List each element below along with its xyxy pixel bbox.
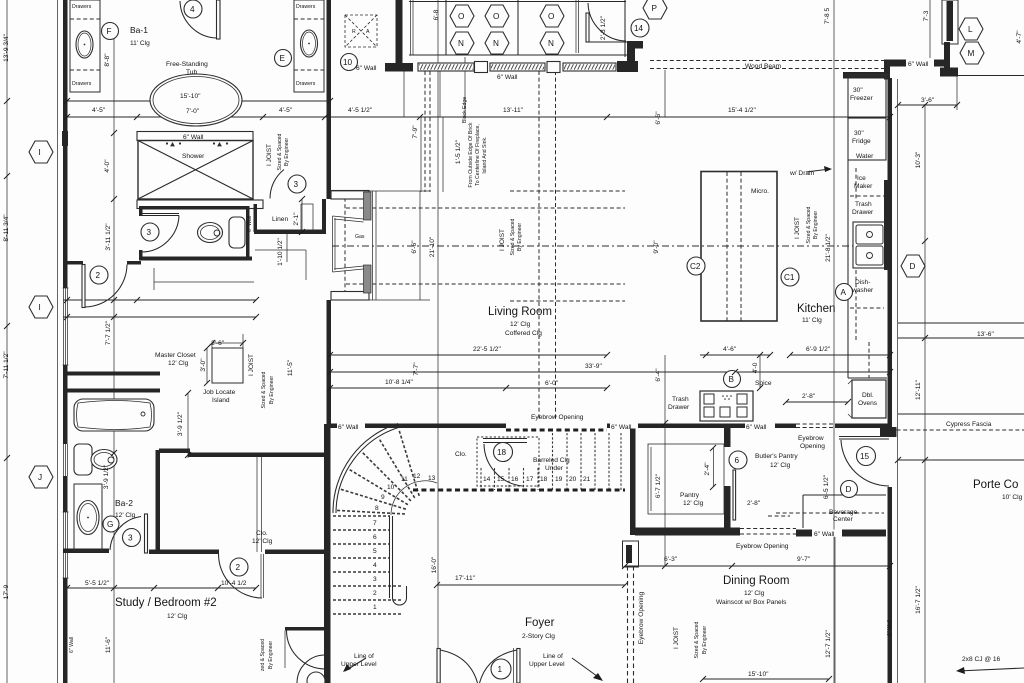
svg-text:By Engineer: By Engineer (269, 376, 275, 405)
svg-text:6" Wall: 6" Wall (908, 61, 929, 68)
svg-text:Sized & Spaced: Sized & Spaced (261, 371, 267, 408)
svg-text:Coffered Clg: Coffered Clg (505, 330, 542, 337)
svg-text:3'-9 1/2": 3'-9 1/2" (177, 411, 184, 436)
svg-text:6" Wall: 6" Wall (338, 424, 359, 431)
svg-text:A: A (841, 288, 847, 297)
svg-text:Drawer: Drawer (668, 404, 690, 411)
svg-text:Block Edge: Block Edge (462, 97, 468, 123)
svg-text:Freezer: Freezer (850, 95, 874, 102)
svg-text:13'-9 3/4": 13'-9 3/4" (3, 33, 10, 61)
svg-text:I JOIST: I JOIST (248, 354, 255, 376)
svg-text:16: 16 (511, 476, 519, 483)
svg-text:17: 17 (526, 476, 534, 483)
svg-text:Trash: Trash (855, 201, 872, 208)
svg-text:13'-6": 13'-6" (977, 331, 994, 338)
svg-text:Drawers: Drawers (72, 4, 92, 10)
svg-text:Eyebrow Opening: Eyebrow Opening (736, 543, 789, 550)
svg-text:Upper Level: Upper Level (529, 661, 565, 668)
svg-text:15: 15 (497, 476, 505, 483)
svg-text:R: R (352, 29, 356, 35)
svg-text:C1: C1 (784, 273, 795, 282)
svg-text:To Centerline Of Fireplace,: To Centerline Of Fireplace, (475, 124, 481, 186)
svg-text:I JOIST: I JOIST (499, 229, 506, 251)
svg-text:Barreled Clg: Barreled Clg (533, 457, 570, 464)
svg-text:C2: C2 (690, 262, 701, 271)
svg-text:3'-11 1/2": 3'-11 1/2" (105, 223, 112, 251)
svg-text:Drawers: Drawers (296, 81, 316, 87)
svg-text:12' Clg: 12' Clg (510, 321, 531, 328)
svg-text:18: 18 (540, 476, 548, 483)
svg-text:J: J (38, 473, 42, 482)
svg-text:21: 21 (583, 476, 591, 483)
svg-text:Island And Sink.: Island And Sink. (482, 136, 488, 173)
svg-text:washer: washer (851, 287, 874, 294)
svg-text:Foyer: Foyer (525, 617, 555, 629)
svg-text:21'-10": 21'-10" (429, 236, 436, 257)
svg-text:3: 3 (128, 534, 133, 543)
svg-text:O: O (548, 12, 554, 21)
svg-text:Under: Under (545, 465, 564, 472)
svg-text:I: I (39, 148, 41, 157)
svg-text:7: 7 (373, 520, 377, 527)
svg-text:N: N (493, 39, 499, 48)
svg-text:11' Clg: 11' Clg (802, 317, 822, 324)
svg-text:4'-6": 4'-6" (723, 346, 737, 353)
svg-text:6'-9 1/2": 6'-9 1/2" (806, 346, 831, 353)
svg-text:Spice: Spice (755, 380, 772, 387)
svg-text:10'-3": 10'-3" (915, 151, 922, 168)
svg-text:A: A (366, 29, 370, 35)
svg-text:2'-3 1/2": 2'-3 1/2" (600, 15, 607, 40)
svg-text:G: G (107, 520, 113, 529)
svg-text:Wainscot w/ Box Panels: Wainscot w/ Box Panels (716, 599, 787, 606)
svg-text:14: 14 (483, 476, 491, 483)
svg-text:4'-0": 4'-0" (104, 159, 111, 173)
svg-text:19: 19 (555, 476, 563, 483)
svg-text:2-Story Clg: 2-Story Clg (522, 633, 555, 640)
svg-text:1'-5 1/2": 1'-5 1/2" (455, 139, 462, 164)
svg-text:Maker: Maker (854, 183, 873, 190)
svg-text:Ovens: Ovens (858, 400, 878, 407)
svg-text:4'-5": 4'-5" (279, 107, 293, 114)
svg-text:9: 9 (381, 494, 385, 501)
svg-text:2'-6": 2'-6" (211, 340, 225, 347)
svg-text:P: P (652, 4, 658, 13)
svg-text:21'-8 1/2": 21'-8 1/2" (825, 233, 832, 261)
svg-text:6" Wall: 6" Wall (887, 620, 893, 636)
svg-text:N: N (458, 39, 464, 48)
svg-text:6'-5 1/2": 6'-5 1/2" (823, 474, 830, 499)
svg-text:6" Wall: 6" Wall (247, 216, 253, 232)
svg-text:15'-10": 15'-10" (180, 93, 201, 100)
svg-text:Eyebrow: Eyebrow (798, 435, 824, 442)
svg-text:Sized & Spaced: Sized & Spaced (806, 206, 812, 243)
svg-text:Master Closet: Master Closet (155, 352, 196, 359)
svg-text:Dish-: Dish- (855, 279, 870, 286)
svg-text:From Outside Edge Of Brick: From Outside Edge Of Brick (468, 122, 474, 187)
svg-text:D: D (846, 485, 852, 494)
svg-text:8'-11 3/4": 8'-11 3/4" (3, 214, 10, 242)
svg-text:6'-6": 6'-6" (411, 240, 418, 254)
svg-text:5: 5 (373, 548, 377, 555)
svg-text:I JOIST: I JOIST (266, 144, 273, 166)
svg-text:Job Locate: Job Locate (203, 389, 236, 396)
svg-text:4: 4 (190, 5, 195, 14)
svg-text:12' Clg: 12' Clg (744, 590, 765, 597)
svg-text:12'-7 1/2": 12'-7 1/2" (825, 629, 832, 657)
svg-text:By Engineer: By Engineer (284, 138, 290, 167)
svg-text:13'-11": 13'-11" (503, 107, 524, 114)
svg-text:Micro.: Micro. (751, 188, 769, 195)
svg-text:Study / Bedroom #2: Study / Bedroom #2 (115, 597, 217, 609)
svg-text:12'-11": 12'-11" (915, 379, 922, 400)
svg-text:Drawers: Drawers (296, 4, 316, 10)
svg-text:Wood Beam: Wood Beam (745, 63, 782, 70)
svg-text:16'-7 1/2": 16'-7 1/2" (915, 585, 922, 613)
svg-text:7'-8 5: 7'-8 5 (824, 8, 831, 25)
svg-text:Drawers: Drawers (72, 81, 92, 87)
svg-text:1: 1 (498, 665, 503, 674)
svg-text:Living Room: Living Room (488, 306, 552, 318)
svg-text:9'-0": 9'-0" (653, 240, 660, 254)
svg-text:Pantry: Pantry (680, 492, 700, 499)
svg-text:4'-0: 4'-0 (752, 362, 759, 373)
svg-text:5'-5 1/2": 5'-5 1/2" (85, 580, 110, 587)
svg-text:Linen: Linen (272, 216, 288, 223)
svg-text:7'-9": 7'-9" (412, 125, 419, 139)
svg-text:By Engineer: By Engineer (813, 211, 819, 240)
svg-text:By Engineer: By Engineer (702, 626, 708, 655)
svg-text:4'-5": 4'-5" (92, 107, 106, 114)
svg-text:Free-Standing: Free-Standing (166, 61, 208, 68)
svg-text:Dbl.: Dbl. (862, 392, 874, 399)
svg-text:18: 18 (497, 448, 507, 457)
svg-text:14: 14 (634, 24, 644, 33)
svg-text:3: 3 (294, 180, 299, 189)
svg-text:6'-3": 6'-3" (664, 556, 678, 563)
svg-text:12' Clg: 12' Clg (683, 500, 704, 507)
svg-text:33'-9": 33'-9" (585, 363, 602, 370)
svg-text:zed & Spaced: zed & Spaced (260, 639, 266, 671)
svg-text:16'-0": 16'-0" (431, 556, 438, 573)
svg-text:B: B (729, 375, 735, 384)
svg-text:13: 13 (428, 475, 436, 482)
svg-text:Sized & Spaced: Sized & Spaced (694, 621, 700, 658)
svg-text:Shower: Shower (182, 153, 205, 160)
svg-text:Sized & Spaced: Sized & Spaced (510, 218, 516, 255)
svg-text:6" Wall: 6" Wall (746, 424, 767, 431)
svg-text:I JOIST: I JOIST (673, 627, 680, 649)
svg-text:3: 3 (147, 228, 152, 237)
svg-text:17'-9: 17'-9 (3, 584, 10, 599)
svg-text:2'-1": 2'-1" (293, 212, 300, 226)
svg-text:6'-6": 6'-6" (655, 111, 662, 125)
svg-text:Tub: Tub (186, 69, 197, 76)
svg-text:20: 20 (569, 476, 577, 483)
svg-text:Fridge: Fridge (852, 138, 871, 145)
svg-text:8: 8 (375, 505, 379, 512)
svg-text:Kitchen: Kitchen (797, 303, 835, 315)
svg-text:10' Clg: 10' Clg (1002, 494, 1023, 501)
svg-text:D: D (910, 262, 916, 271)
svg-text:2'-8": 2'-8" (802, 393, 816, 400)
svg-text:Ice: Ice (857, 175, 866, 182)
svg-text:Gas: Gas (355, 234, 365, 240)
svg-text:6" Wall: 6" Wall (814, 531, 835, 538)
svg-text:I JOIST: I JOIST (794, 217, 801, 239)
svg-text:6'-0": 6'-0" (545, 380, 559, 387)
svg-text:M: M (968, 49, 975, 58)
svg-text:9'-7": 9'-7" (797, 556, 811, 563)
svg-text:7'-7": 7'-7" (413, 362, 420, 376)
svg-text:2x8 CJ @ 16: 2x8 CJ @ 16 (962, 656, 1001, 663)
svg-text:7'-11 1/2": 7'-11 1/2" (3, 351, 10, 379)
svg-text:3: 3 (373, 576, 377, 583)
svg-text:11'-5": 11'-5" (287, 359, 294, 376)
svg-text:Porte Co: Porte Co (973, 479, 1018, 491)
svg-text:6" Wall: 6" Wall (497, 74, 518, 81)
svg-text:Ba-2: Ba-2 (115, 498, 133, 508)
svg-text:6" Wall: 6" Wall (69, 637, 75, 653)
svg-text:10'-8 1/4": 10'-8 1/4" (385, 379, 413, 386)
svg-text:12' Clg: 12' Clg (252, 538, 273, 545)
svg-text:Beverage: Beverage (829, 509, 858, 516)
svg-text:12' Clg: 12' Clg (770, 462, 791, 469)
svg-text:1'-10 1/2": 1'-10 1/2" (277, 237, 284, 265)
svg-text:Trash: Trash (672, 396, 689, 403)
svg-text:N: N (548, 39, 554, 48)
svg-text:E: E (280, 54, 286, 63)
svg-text:6'-4": 6'-4" (655, 368, 662, 382)
svg-text:O: O (493, 12, 499, 21)
svg-text:6'-8: 6'-8 (433, 9, 440, 20)
svg-text:11' Clg: 11' Clg (130, 40, 150, 47)
svg-text:Eyebrow Opening: Eyebrow Opening (638, 591, 645, 644)
svg-text:4: 4 (373, 562, 377, 569)
svg-text:7'-7 1/2": 7'-7 1/2" (105, 320, 112, 345)
svg-text:Opening: Opening (800, 443, 825, 450)
svg-text:30": 30" (853, 87, 863, 94)
svg-text:6" Wall: 6" Wall (611, 424, 632, 431)
svg-text:O: O (458, 12, 464, 21)
svg-text:15'-10": 15'-10" (748, 671, 769, 678)
svg-text:12' Clg: 12' Clg (115, 512, 136, 519)
svg-text:Dining Room: Dining Room (723, 575, 789, 587)
svg-text:10: 10 (387, 484, 395, 491)
svg-text:10: 10 (343, 58, 353, 67)
svg-text:Sized & Spaced: Sized & Spaced (277, 133, 283, 170)
svg-text:11: 11 (401, 476, 408, 483)
svg-text:Cypress Fascia: Cypress Fascia (946, 421, 992, 428)
svg-text:1: 1 (373, 604, 377, 611)
svg-text:7'-3: 7'-3 (923, 10, 930, 21)
svg-text:F: F (107, 27, 112, 36)
svg-text:2'-4": 2'-4" (704, 462, 711, 476)
svg-text:12' Clg: 12' Clg (168, 360, 189, 367)
svg-text:Clo.: Clo. (455, 451, 467, 458)
svg-text:Butler's Pantry: Butler's Pantry (755, 453, 798, 460)
svg-text:3'-9 1/2": 3'-9 1/2" (103, 464, 110, 489)
svg-text:Water: Water (856, 153, 874, 160)
svg-text:3'-6": 3'-6" (921, 97, 935, 104)
svg-text:3'-0": 3'-0" (200, 358, 207, 372)
svg-text:L: L (968, 25, 973, 34)
svg-text:2: 2 (96, 271, 101, 280)
svg-text:6" Wall: 6" Wall (183, 134, 204, 141)
svg-text:6: 6 (735, 456, 740, 465)
svg-text:12' Clg: 12' Clg (167, 613, 188, 620)
svg-text:6: 6 (373, 534, 377, 541)
svg-text:By Engineer: By Engineer (517, 223, 523, 252)
svg-text:Line of: Line of (543, 653, 563, 660)
svg-text:8'-8": 8'-8" (104, 53, 111, 67)
svg-text:2: 2 (373, 590, 377, 597)
svg-text:22'-5 1/2": 22'-5 1/2" (473, 346, 501, 353)
svg-text:30": 30" (854, 130, 864, 137)
svg-text:I: I (39, 303, 41, 312)
svg-text:11'-6": 11'-6" (105, 636, 112, 653)
svg-text:10'-4 1/2: 10'-4 1/2 (221, 580, 247, 587)
svg-text:Clo.: Clo. (256, 530, 268, 537)
svg-text:Island: Island (212, 397, 230, 404)
svg-text:2: 2 (236, 563, 241, 572)
svg-text:17'-11": 17'-11" (455, 575, 476, 582)
svg-text:12: 12 (413, 473, 421, 480)
svg-text:7'-0": 7'-0" (186, 108, 200, 115)
svg-text:Center: Center (833, 516, 854, 523)
svg-text:Eyebrow Opening: Eyebrow Opening (531, 414, 584, 421)
svg-text:4'-7": 4'-7" (1016, 30, 1023, 44)
svg-text:15: 15 (860, 452, 870, 461)
svg-text:By Engineer: By Engineer (268, 641, 274, 670)
svg-text:Drawer: Drawer (852, 209, 874, 216)
svg-text:6'-7 1/2": 6'-7 1/2" (655, 473, 662, 498)
svg-text:4'-5 1/2": 4'-5 1/2" (348, 107, 373, 114)
svg-text:6" Wall: 6" Wall (356, 65, 377, 72)
svg-text:15'-4 1/2": 15'-4 1/2" (728, 107, 756, 114)
svg-text:Ba-1: Ba-1 (130, 25, 148, 35)
svg-text:2'-8": 2'-8" (747, 500, 761, 507)
